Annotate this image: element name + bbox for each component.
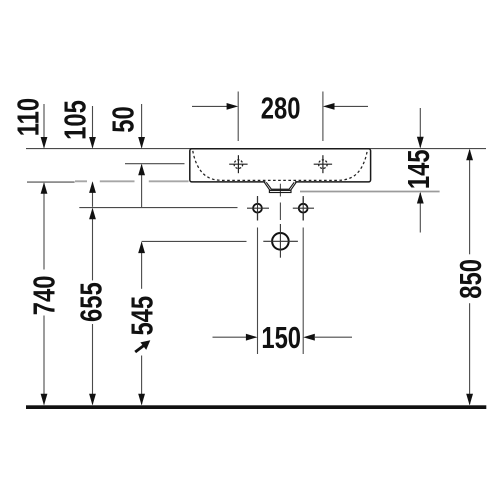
siphon hole (big circle + crosshair) bbox=[263, 224, 298, 258]
dimension 150 bbox=[213, 228, 353, 355]
dimension 545 vertical bbox=[138, 242, 145, 406]
dimension 280 bbox=[192, 92, 368, 142]
wire: siphon level ref line (545) bbox=[142, 240, 247, 242]
drain / overflow trapezoid bbox=[264, 182, 296, 192]
bolt centerline left bbox=[257, 196, 259, 221]
svg-text:850: 850 bbox=[453, 259, 488, 299]
wire: faucet level ref line (50) bbox=[125, 163, 185, 165]
faucet hole right (dashed circle + crosshair) bbox=[314, 155, 332, 173]
wire: bolt-hole level ref line (655) bbox=[79, 207, 237, 209]
dimension 655 vertical bbox=[89, 208, 96, 406]
svg-text:145: 145 bbox=[401, 149, 436, 189]
faucet hole left (dashed circle + crosshair) bbox=[229, 155, 247, 173]
dimension 145 bbox=[417, 108, 424, 233]
bolt hole right bbox=[293, 198, 314, 221]
basin interior dashed profile bbox=[193, 151, 367, 181]
floor line bbox=[26, 405, 486, 409]
dimension 50 lower arrow with tail through to bolt line bbox=[138, 164, 145, 208]
svg-text:150: 150 bbox=[261, 320, 301, 355]
dimension 50 upper line bbox=[138, 104, 145, 149]
svg-text:280: 280 bbox=[261, 91, 301, 126]
wire: gray drain-bottom level line (145 lower ref) bbox=[300, 191, 440, 193]
dimension 105 upper line bbox=[89, 106, 96, 149]
bolt hole left bbox=[247, 198, 269, 221]
dimension 740 vertical bbox=[41, 182, 48, 405]
adjustable-height NE arrow glyph bbox=[135, 340, 150, 352]
bolt centerline right bbox=[302, 196, 304, 221]
drain opening gap in basin bottom edge bbox=[265, 181, 295, 184]
svg-text:105: 105 bbox=[58, 100, 93, 140]
wire: top reference line (rim level 850) bbox=[26, 148, 486, 150]
basin body bbox=[190, 149, 371, 182]
wire: gray sink-bottom extension segments bbox=[75, 180, 189, 182]
svg-text:655: 655 bbox=[74, 282, 109, 322]
svg-text:110: 110 bbox=[11, 98, 46, 136]
svg-text:740: 740 bbox=[27, 276, 62, 316]
wire: lower ref line for 110 (sink bottom level, left) bbox=[27, 181, 75, 183]
dimension 110 upper line bbox=[41, 104, 48, 149]
dimension 105 lower arrow bbox=[89, 181, 96, 207]
svg-text:545: 545 bbox=[124, 296, 159, 336]
dimension 850 vertical bbox=[466, 149, 473, 406]
svg-text:50: 50 bbox=[106, 106, 141, 132]
centerline of basin (dash-dot) bbox=[279, 175, 281, 220]
